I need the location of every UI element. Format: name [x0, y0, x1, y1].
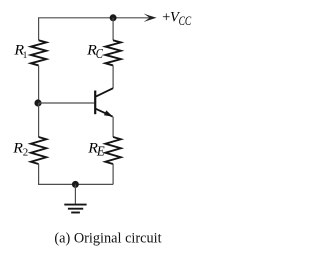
svg-text:1: 1 — [23, 50, 28, 60]
wire emitter to RE — [112, 117, 114, 137]
node base junction dot — [34, 99, 41, 106]
wire ground stem — [74, 184, 76, 203]
svg-text:CC: CC — [179, 13, 192, 28]
svg-text:C: C — [96, 46, 104, 61]
transistor Q1 base bar — [94, 91, 96, 115]
node ground junction dot — [72, 181, 79, 188]
wire R1 bottom to base node — [38, 65, 40, 103]
wire base node to R2 — [38, 103, 40, 137]
resistor RE — [105, 137, 120, 164]
ground — [64, 205, 86, 213]
wire RC top to rail — [112, 18, 114, 41]
resistor RC — [105, 40, 120, 65]
transistor Q1 emitter arrowhead — [104, 111, 112, 117]
transistor Q1 emitter lead with arrow — [96, 109, 113, 117]
transistor Q1 collector lead — [96, 88, 113, 96]
node junction dot top (RC branch) — [110, 14, 117, 21]
resistor R1 — [31, 40, 46, 65]
resistor R2 — [31, 137, 46, 164]
wire RC bottom to collector — [112, 65, 114, 88]
wire R2 to bottom rail — [39, 164, 114, 184]
wire RE to bottom rail — [112, 164, 114, 184]
arrowhead to +VCC — [144, 14, 157, 23]
svg-text:R: R — [12, 140, 23, 156]
svg-text:2: 2 — [23, 147, 29, 159]
svg-text:E: E — [96, 144, 105, 159]
wire top rail — [39, 18, 152, 41]
svg-text:(a) Original circuit: (a) Original circuit — [54, 231, 161, 247]
wire base node to transistor base — [39, 102, 95, 104]
